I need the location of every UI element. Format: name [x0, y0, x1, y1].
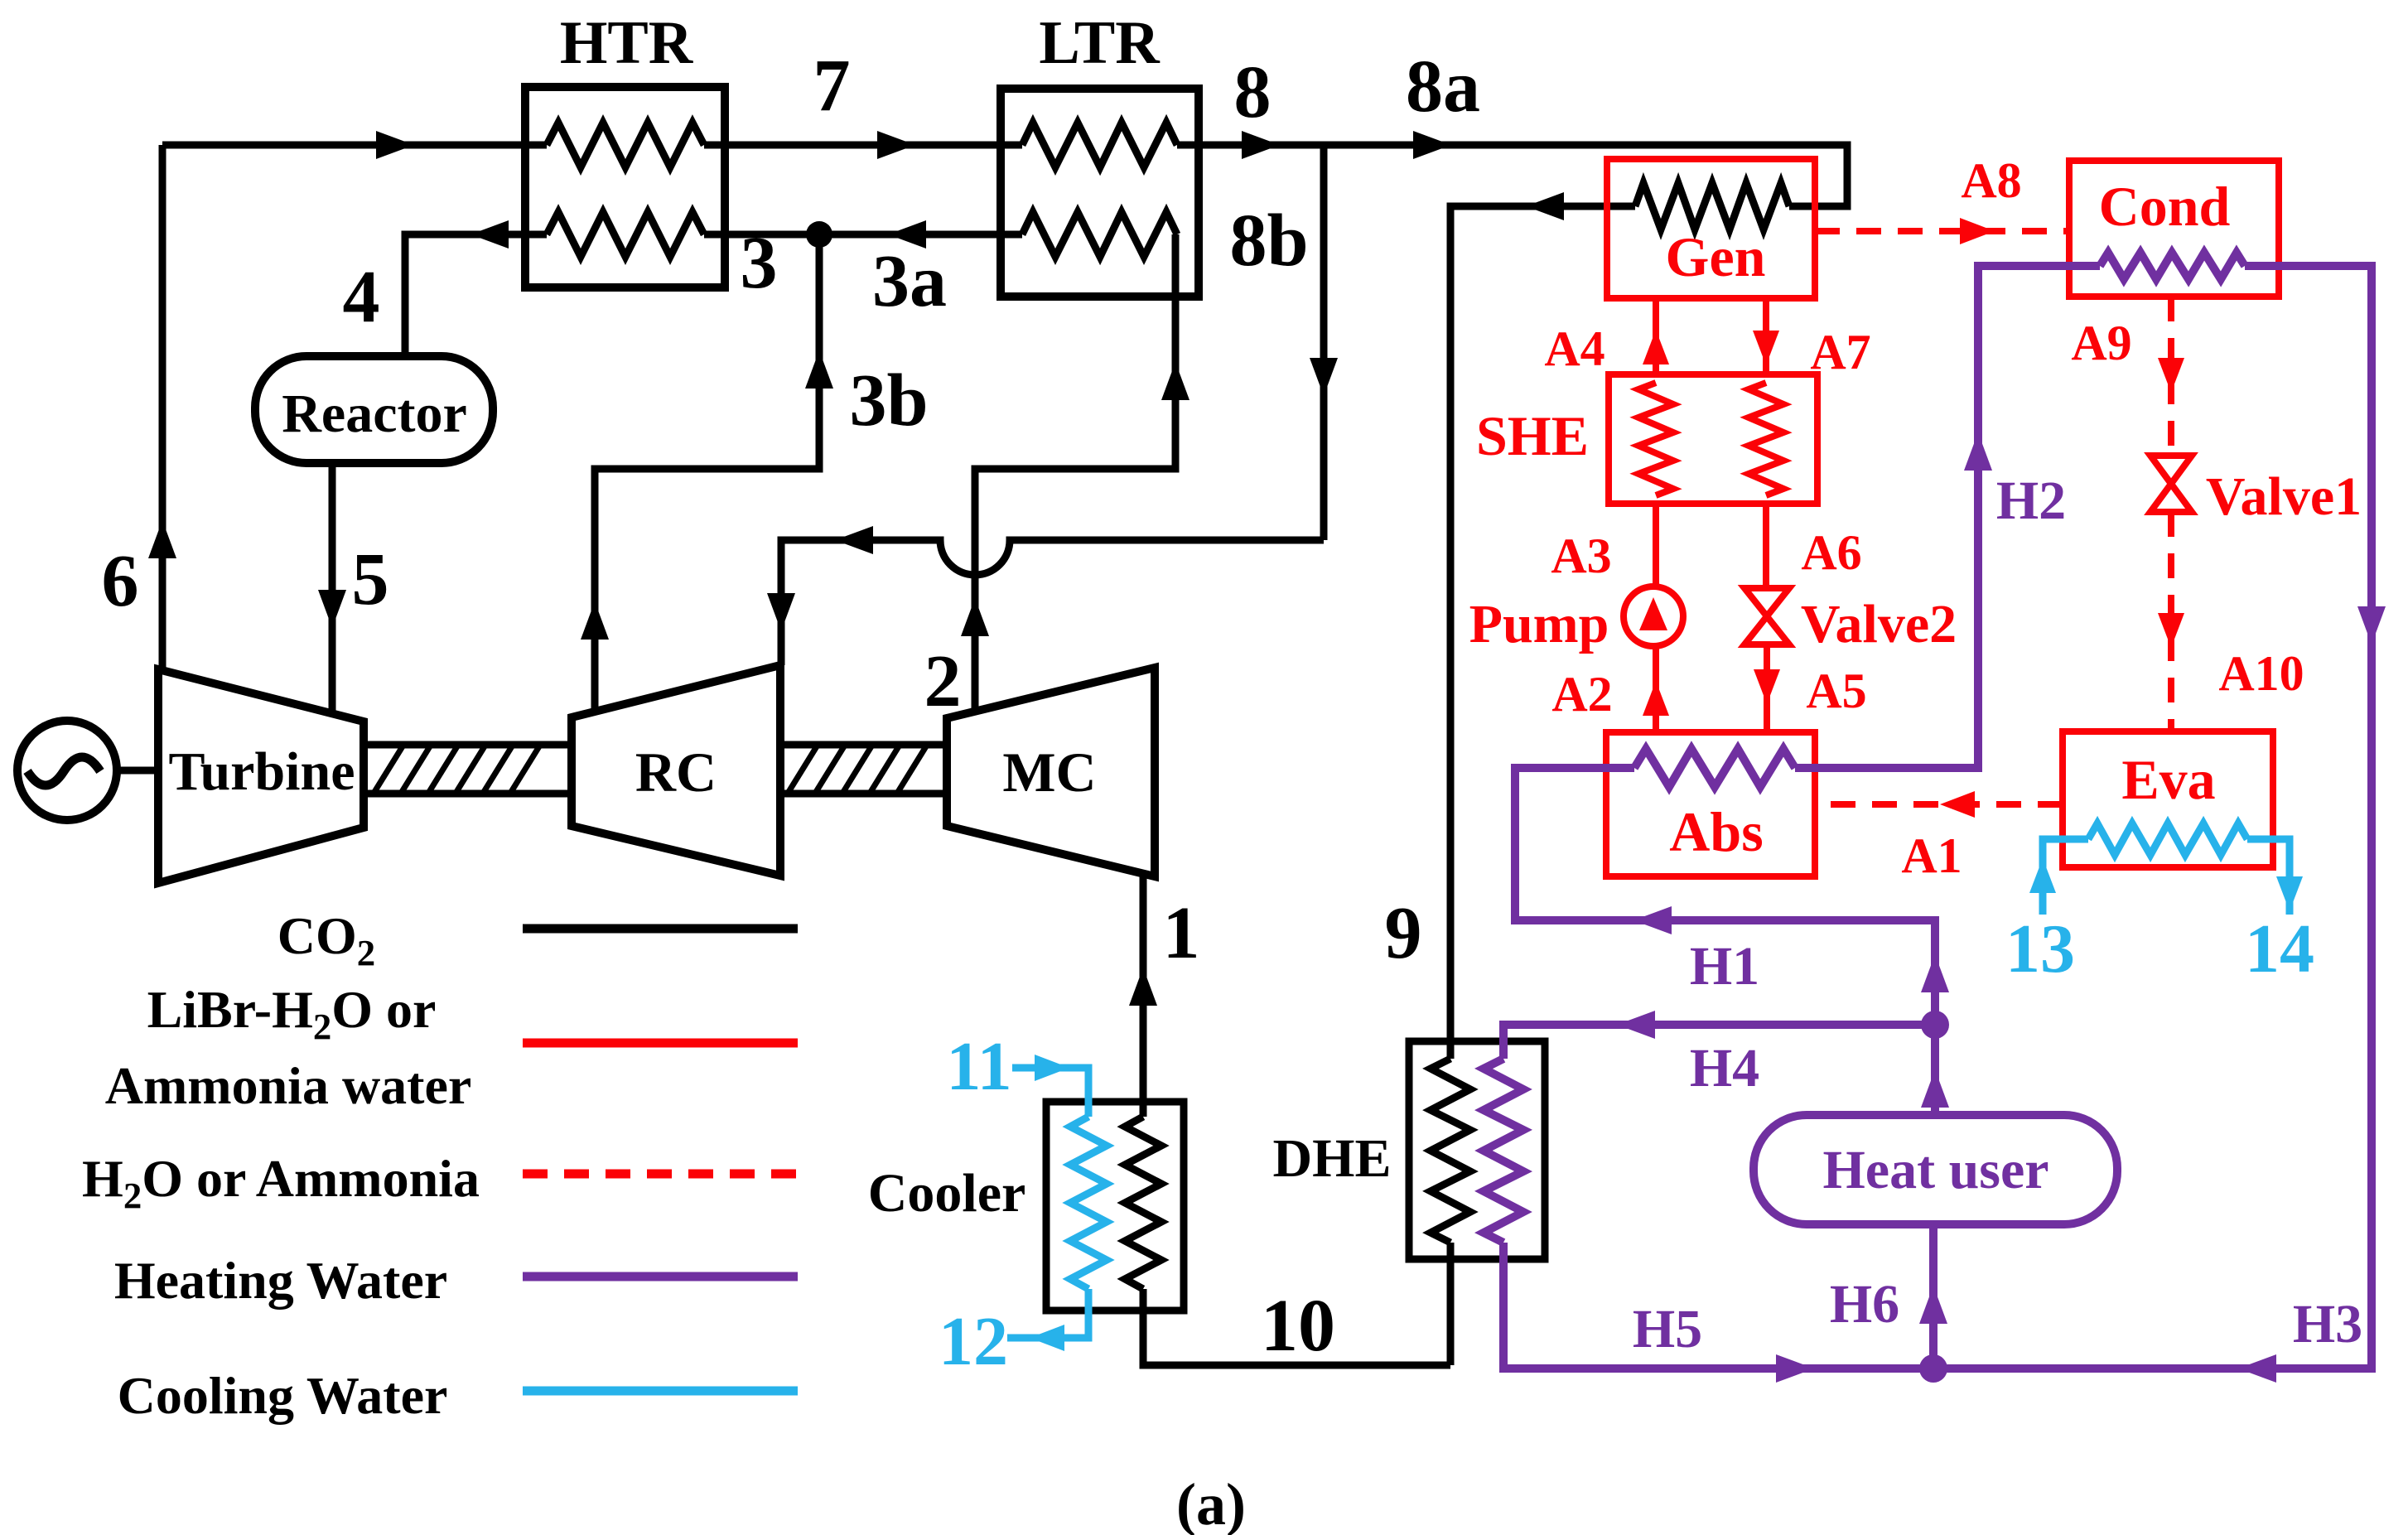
svg-text:8: 8: [1234, 51, 1272, 133]
DHE CO2 zigzag: [1431, 1059, 1470, 1243]
valve Valve2 symbol: [1744, 588, 1789, 644]
arrow heat user up: [1921, 1069, 1949, 1108]
svg-text:13: 13: [2005, 910, 2075, 987]
arrow wire 13: [2029, 858, 2056, 893]
label 3b: [849, 360, 928, 442]
svg-text:8a: 8a: [1406, 46, 1480, 128]
label A6: [1801, 525, 1861, 580]
arrow H4: [1617, 1011, 1655, 1039]
arrow wire 11: [1035, 1055, 1069, 1081]
label 12: [939, 1303, 1008, 1380]
label Valve1: [2206, 466, 2362, 527]
label HTR: [560, 9, 694, 77]
arrow H1 left: [1633, 906, 1672, 934]
generator G (electric) symbol: [17, 721, 117, 820]
svg-text:LiBr-H2O or: LiBr-H2O or: [147, 980, 437, 1047]
label 1: [1163, 892, 1200, 974]
svg-text:HTR: HTR: [560, 9, 694, 77]
wire 3a LTR to junction: [819, 231, 1022, 239]
Abs heating-water zigzag: [1634, 749, 1795, 787]
wire A5 Valve2 to Abs: [1764, 644, 1770, 732]
LTR cold-side zigzag: [1022, 212, 1177, 257]
svg-text:6: 6: [102, 540, 139, 622]
svg-text:4: 4: [343, 256, 380, 338]
svg-text:9: 9: [1385, 892, 1422, 974]
wire 8b split down: [1320, 145, 1328, 540]
label LTR: [1039, 9, 1161, 77]
wire A2 Abs to Pump: [1653, 646, 1659, 732]
arrow H2: [1964, 432, 1992, 471]
svg-text:H6: H6: [1830, 1274, 1899, 1335]
label 3a: [872, 240, 947, 322]
wire 10 DHE bottom: [1447, 1243, 1455, 1365]
cooler cooling-water zigzag: [1070, 1117, 1107, 1289]
label 7: [813, 45, 851, 127]
compressor MC: [947, 668, 1155, 876]
svg-text:H2O or Ammonia: H2O or Ammonia: [82, 1149, 480, 1216]
arrow A8: [1960, 218, 1995, 244]
label Cond: [2099, 175, 2231, 238]
wire 1 Cooler to MC: [1140, 876, 1147, 1117]
arrow wire 14: [2276, 876, 2303, 911]
arrow wire 6: [148, 520, 176, 558]
arrow A4: [1643, 330, 1669, 364]
svg-text:Heating Water: Heating Water: [114, 1251, 447, 1310]
wire 9 return from Gen: [1450, 206, 1635, 1059]
LTR hot-side zigzag: [1022, 123, 1177, 167]
wire H1 Abs feed: [1515, 768, 1935, 1025]
HTR hot-side zigzag: [547, 123, 704, 167]
label A4: [1544, 321, 1605, 376]
label 4: [343, 256, 380, 338]
svg-text:DHE: DHE: [1272, 1128, 1391, 1189]
node junction 3 dot: [806, 221, 832, 248]
wire H6 junction to Heat user: [1929, 1224, 1937, 1368]
pump Pump symbol: [1624, 586, 1683, 646]
arrow into HTR: [376, 131, 414, 159]
svg-text:Valve1: Valve1: [2206, 466, 2362, 527]
wire A3 SHE to Pump: [1653, 504, 1659, 586]
arrow wire 1: [1129, 968, 1157, 1006]
wire 13 chilled water in: [2043, 839, 2088, 915]
wire 8b horizontal with hop over wire 2: [781, 540, 1324, 665]
svg-text:A10: A10: [2218, 646, 2304, 701]
svg-text:A8: A8: [1961, 153, 2021, 208]
label Eva: [2121, 748, 2215, 811]
heat user rounded box: [1754, 1115, 2117, 1224]
Eva chilled-water zigzag: [2088, 823, 2247, 855]
svg-text:10: 10: [1261, 1285, 1335, 1367]
wire A7 Gen to SHE: [1763, 298, 1769, 374]
arrow A2: [1643, 681, 1669, 716]
label DHE: [1272, 1128, 1391, 1189]
wire 11 cooling water in: [1012, 1068, 1088, 1117]
wire H3 Cond to junction: [1933, 266, 2372, 1368]
wire A4 SHE to Gen: [1653, 298, 1659, 374]
svg-text:Abs: Abs: [1669, 800, 1763, 863]
SHE box: [1609, 374, 1817, 504]
legend Cooling Water entry: [118, 1366, 798, 1425]
valve Valve1 symbol: [2150, 456, 2192, 512]
compressor RC: [572, 665, 780, 876]
heat exchanger LTR box: [1001, 89, 1199, 297]
svg-text:7: 7: [813, 45, 851, 127]
node heating water junction upper dot: [1921, 1011, 1949, 1039]
cooler CO2 zigzag: [1125, 1117, 1161, 1289]
label H5: [1633, 1299, 1702, 1359]
wire 7 top line to HTR: [162, 142, 547, 149]
wire 2 MC outlet to LTR: [975, 234, 1175, 712]
generator Gen box (absorption): [1607, 159, 1815, 298]
wire A6 SHE to Valve2: [1763, 504, 1769, 588]
svg-text:1: 1: [1163, 892, 1200, 974]
arrow A7: [1753, 331, 1779, 365]
wire 12 cooling water out: [1007, 1289, 1088, 1338]
svg-text:Eva: Eva: [2121, 748, 2215, 811]
label 6: [102, 540, 139, 622]
wire H5 DHE to junction: [1503, 1243, 1933, 1368]
label 5: [352, 538, 389, 620]
legend Heating Water entry: [114, 1251, 798, 1310]
reactor Reactor: [255, 356, 493, 463]
svg-text:14: 14: [2245, 910, 2314, 987]
svg-text:2: 2: [924, 640, 962, 722]
svg-text:A3: A3: [1551, 529, 1611, 583]
svg-text:Heat user: Heat user: [1822, 1140, 2048, 1200]
svg-text:3a: 3a: [872, 240, 947, 322]
svg-text:Valve2: Valve2: [1801, 594, 1957, 654]
svg-text:Turbine: Turbine: [168, 741, 355, 802]
wire 6 (turbine outlet up): [159, 145, 166, 669]
label H3: [2293, 1294, 2362, 1354]
arrow A1: [1940, 791, 1975, 818]
label 8a: [1406, 46, 1480, 128]
SHE left zigzag: [1638, 383, 1673, 495]
svg-text:Cooler: Cooler: [868, 1163, 1026, 1224]
arrow wire 7: [877, 131, 915, 159]
label A1: [1901, 828, 1962, 883]
svg-text:SHE: SHE: [1476, 404, 1589, 467]
arrow wire 5: [318, 590, 346, 628]
wire 10 cooler down: [1143, 1289, 1450, 1365]
label H6: [1830, 1274, 1899, 1335]
arrow wire 2 up: [961, 598, 989, 636]
svg-text:8b: 8b: [1229, 200, 1308, 282]
DHE box: [1409, 1041, 1545, 1259]
svg-text:12: 12: [939, 1303, 1008, 1380]
label SHE: [1476, 404, 1589, 467]
arrow RC outlet: [581, 601, 609, 640]
arrow wire 8a: [1413, 131, 1451, 159]
wire H4 junction to DHE: [1503, 1025, 1935, 1059]
label 3: [741, 222, 778, 304]
arrow wire 3b: [805, 350, 833, 389]
label H2: [1996, 471, 2066, 531]
label 9: [1385, 892, 1422, 974]
condenser Cond box: [2069, 161, 2279, 297]
SHE right zigzag: [1749, 383, 1783, 495]
cooler box: [1046, 1102, 1184, 1311]
arrow 8b left: [835, 526, 873, 554]
label A8: [1961, 153, 2021, 208]
svg-text:H3: H3: [2293, 1294, 2362, 1354]
svg-text:A7: A7: [1810, 325, 1870, 379]
wire H2 Abs to Cond: [1795, 266, 2100, 768]
svg-text:Gen: Gen: [1666, 225, 1766, 288]
label 10: [1261, 1285, 1335, 1367]
arrow H1 up: [1921, 954, 1949, 992]
arrow wire 2 into LTR: [1161, 362, 1190, 400]
svg-text:11: 11: [946, 1028, 1011, 1105]
svg-text:Cooling Water: Cooling Water: [118, 1366, 448, 1425]
wire 3b RC outlet to junction: [595, 234, 819, 712]
label 8b: [1229, 200, 1308, 282]
svg-text:3b: 3b: [849, 360, 928, 442]
wire A8 Gen to Cond (dashed): [1815, 228, 2069, 234]
Gen hot-side zigzag: [1635, 183, 1789, 229]
arrow wire 3a: [888, 220, 926, 249]
heat exchanger HTR box: [525, 87, 725, 287]
arrow wire 4: [471, 220, 509, 249]
svg-text:5: 5: [352, 538, 389, 620]
label H1: [1690, 936, 1759, 997]
svg-text:H4: H4: [1690, 1038, 1759, 1098]
label Cooler: [868, 1163, 1026, 1224]
arrow A5: [1754, 669, 1780, 704]
svg-text:Pump: Pump: [1469, 594, 1609, 654]
wire 5 Reactor to turbine: [329, 463, 336, 711]
label 13: [2005, 910, 2075, 987]
wire Heat user to junction: [1931, 1025, 1939, 1115]
label 8: [1234, 51, 1272, 133]
turbine Turbine: [158, 669, 364, 883]
absorber Abs box: [1606, 732, 1815, 876]
svg-text:H1: H1: [1690, 936, 1759, 997]
legend H2O or Ammonia entry: [82, 1149, 798, 1216]
wire A9 Cond to Valve1 (dashed): [2168, 297, 2174, 456]
HTR cold-side zigzag: [547, 212, 704, 257]
arrow H6: [1919, 1286, 1947, 1324]
arrow 8b down: [1310, 358, 1338, 396]
svg-text:A9: A9: [2071, 316, 2131, 370]
label Gen: [1666, 225, 1766, 288]
label 11: [946, 1028, 1011, 1105]
label 2: [924, 640, 962, 722]
label A9: [2071, 316, 2131, 370]
Cond heating-water zigzag: [2100, 253, 2245, 279]
svg-text:A5: A5: [1806, 664, 1866, 718]
arrow wire 8: [1242, 131, 1280, 159]
wire A1 Eva to Abs (dashed): [1817, 801, 2063, 808]
legend CO2 entry: [277, 906, 798, 973]
label A2: [1551, 667, 1612, 722]
svg-text:Ammonia water: Ammonia water: [105, 1056, 472, 1115]
arrow A9: [2158, 358, 2184, 393]
svg-text:A2: A2: [1551, 667, 1612, 722]
arrow H5: [1776, 1354, 1814, 1383]
wire A10 Valve1 to Eva (dashed): [2168, 512, 2174, 731]
wire generator to turbine: [114, 767, 159, 775]
label A10: [2218, 646, 2304, 701]
arrow wire 12: [1030, 1325, 1064, 1351]
legend LiBr-H2O or Ammonia water entry: [105, 980, 798, 1115]
svg-text:Reactor: Reactor: [282, 384, 467, 444]
wire 14 chilled water out: [2247, 839, 2290, 915]
wire 3 junction to HTR: [704, 231, 819, 239]
arrow return from Gen: [1526, 192, 1564, 220]
label A7: [1810, 325, 1870, 379]
label Abs: [1669, 800, 1763, 863]
evaporator Eva box: [2063, 731, 2273, 867]
DHE heating-water zigzag: [1484, 1059, 1523, 1243]
arrow 8b into RC: [767, 593, 795, 631]
label H4: [1690, 1038, 1759, 1098]
shaft RC to MC (hatched): [780, 745, 947, 794]
wire 4 HTR to Reactor: [405, 234, 547, 356]
label A3: [1551, 529, 1611, 583]
svg-text:A1: A1: [1901, 828, 1962, 883]
svg-text:H5: H5: [1633, 1299, 1702, 1359]
svg-text:(a): (a): [1176, 1471, 1246, 1535]
label 14: [2245, 910, 2314, 987]
wire 8 and 8a top line: [1177, 145, 1847, 206]
label Pump: [1469, 594, 1609, 654]
node heating water junction lower dot: [1919, 1354, 1947, 1383]
svg-text:LTR: LTR: [1039, 9, 1161, 77]
svg-text:A4: A4: [1544, 321, 1605, 376]
svg-text:H2: H2: [1996, 471, 2066, 531]
shaft turbine to RC (hatched): [364, 745, 572, 794]
wire 7 HTR to LTR: [704, 142, 1022, 149]
svg-text:RC: RC: [635, 741, 717, 804]
svg-text:MC: MC: [1002, 741, 1096, 804]
arrow H3 left: [2238, 1354, 2276, 1383]
svg-text:A6: A6: [1801, 525, 1861, 580]
svg-text:Cond: Cond: [2099, 175, 2231, 238]
arrow A10: [2158, 613, 2184, 648]
label Valve2: [1801, 594, 1957, 654]
caption (a): [1176, 1471, 1246, 1535]
label A5: [1806, 664, 1866, 718]
arrow H3 down: [2357, 606, 2386, 644]
